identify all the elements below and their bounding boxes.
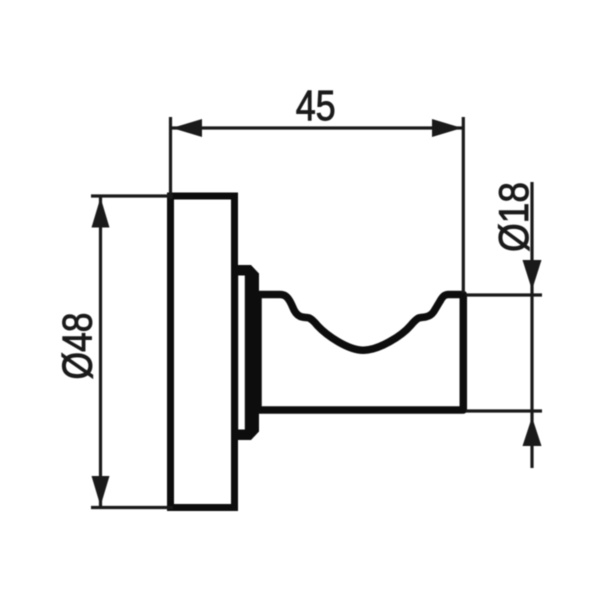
svg-text:Ø48: Ø48 bbox=[54, 313, 101, 380]
dim Ø48: top extension line bbox=[91, 194, 173, 197]
dim 45: left arrowhead bbox=[172, 119, 202, 137]
hook body profile bbox=[258, 295, 463, 411]
dim 45: dimension line bbox=[171, 126, 464, 129]
wall plate (side view rectangle) bbox=[171, 196, 235, 508]
svg-text:45: 45 bbox=[296, 82, 336, 130]
dim Ø18: bottom arrowhead (outside, pointing up) bbox=[523, 417, 542, 446]
dim Ø48: bottom extension line bbox=[91, 506, 173, 509]
dim Ø48: dimension line bbox=[99, 196, 102, 508]
dim Ø18: top extension line bbox=[466, 293, 542, 296]
dim Ø48: top arrowhead bbox=[92, 198, 110, 228]
collar inner slot bbox=[238, 276, 245, 430]
dim 45: right extension line bbox=[462, 117, 465, 293]
dim Ø18: dimension line bbox=[530, 182, 533, 468]
dim 45: right arrowhead bbox=[432, 119, 462, 137]
dim Ø18: bottom extension line bbox=[466, 409, 542, 412]
mounting collar (chamfered) bbox=[234, 265, 260, 440]
svg-text:Ø18: Ø18 bbox=[490, 182, 537, 252]
dim 45: left extension line bbox=[169, 117, 172, 199]
dim Ø18: top arrowhead (outside, pointing down) bbox=[523, 260, 542, 290]
dim Ø48: bottom arrowhead bbox=[92, 476, 110, 506]
